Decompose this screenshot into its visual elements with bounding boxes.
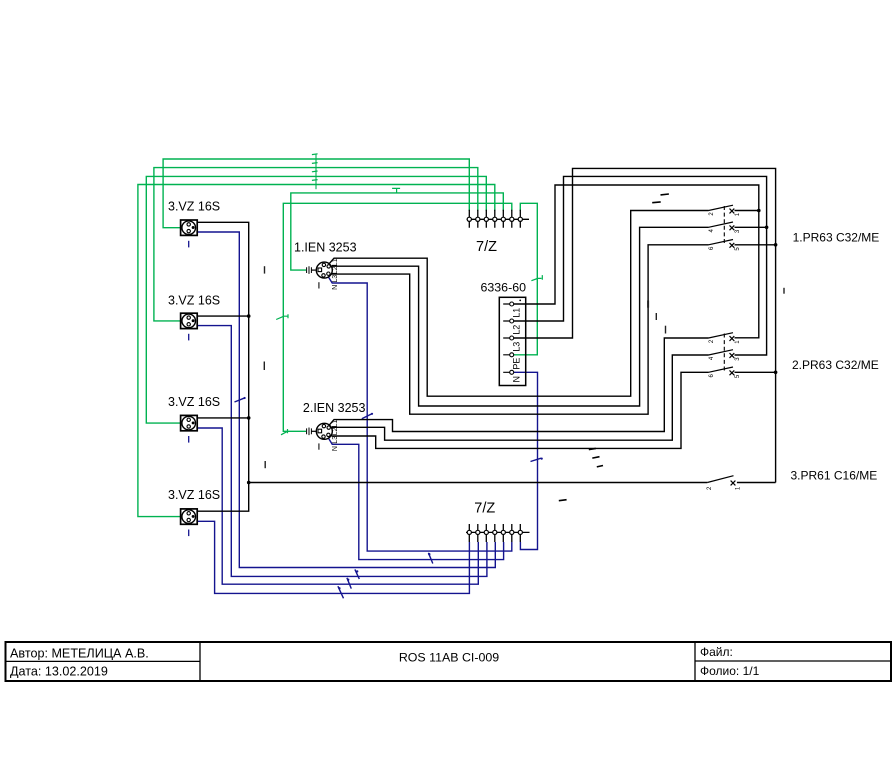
svg-text:Автор: МЕТЕЛИЦА А.В.: Автор: МЕТЕЛИЦА А.В. bbox=[10, 647, 149, 661]
svg-text:1.IEN 3253: 1.IEN 3253 bbox=[294, 241, 357, 255]
svg-text:L3: L3 bbox=[512, 342, 522, 352]
svg-text:L3: L3 bbox=[332, 275, 339, 283]
svg-text:Дата: 13.02.2019: Дата: 13.02.2019 bbox=[10, 665, 108, 679]
svg-text:3.VZ 16S: 3.VZ 16S bbox=[168, 294, 220, 308]
svg-text:N: N bbox=[332, 285, 339, 290]
svg-text:L2: L2 bbox=[332, 427, 339, 435]
svg-text:PE: PE bbox=[512, 358, 522, 370]
svg-text:3.VZ 16S: 3.VZ 16S bbox=[168, 395, 220, 409]
svg-text:N: N bbox=[332, 446, 339, 451]
svg-text:7/Z: 7/Z bbox=[476, 239, 497, 255]
svg-text:1.PR63 C32/ME: 1.PR63 C32/ME bbox=[793, 230, 880, 244]
svg-text:ROS 11AB CI-009: ROS 11AB CI-009 bbox=[399, 650, 499, 664]
svg-text:Файл:: Файл: bbox=[700, 645, 733, 659]
svg-text:3.VZ 16S: 3.VZ 16S bbox=[168, 200, 220, 214]
svg-text:3.VZ 16S: 3.VZ 16S bbox=[168, 488, 220, 502]
svg-text:L1: L1 bbox=[512, 308, 522, 318]
svg-text:L3: L3 bbox=[332, 436, 339, 444]
svg-text:2.IEN 3253: 2.IEN 3253 bbox=[303, 401, 366, 415]
svg-text:L1: L1 bbox=[332, 258, 339, 266]
svg-text:L2: L2 bbox=[512, 325, 522, 335]
svg-text:L2: L2 bbox=[332, 266, 339, 274]
svg-text:6336-60: 6336-60 bbox=[481, 281, 527, 295]
svg-text:L1: L1 bbox=[332, 419, 339, 427]
svg-text:Фолио: 1/1: Фолио: 1/1 bbox=[700, 664, 760, 678]
svg-text:2.PR63 C32/ME: 2.PR63 C32/ME bbox=[792, 358, 879, 372]
svg-text:N: N bbox=[512, 376, 522, 383]
svg-text:3.PR61 C16/ME: 3.PR61 C16/ME bbox=[791, 468, 878, 482]
svg-text:7/Z: 7/Z bbox=[474, 501, 495, 517]
